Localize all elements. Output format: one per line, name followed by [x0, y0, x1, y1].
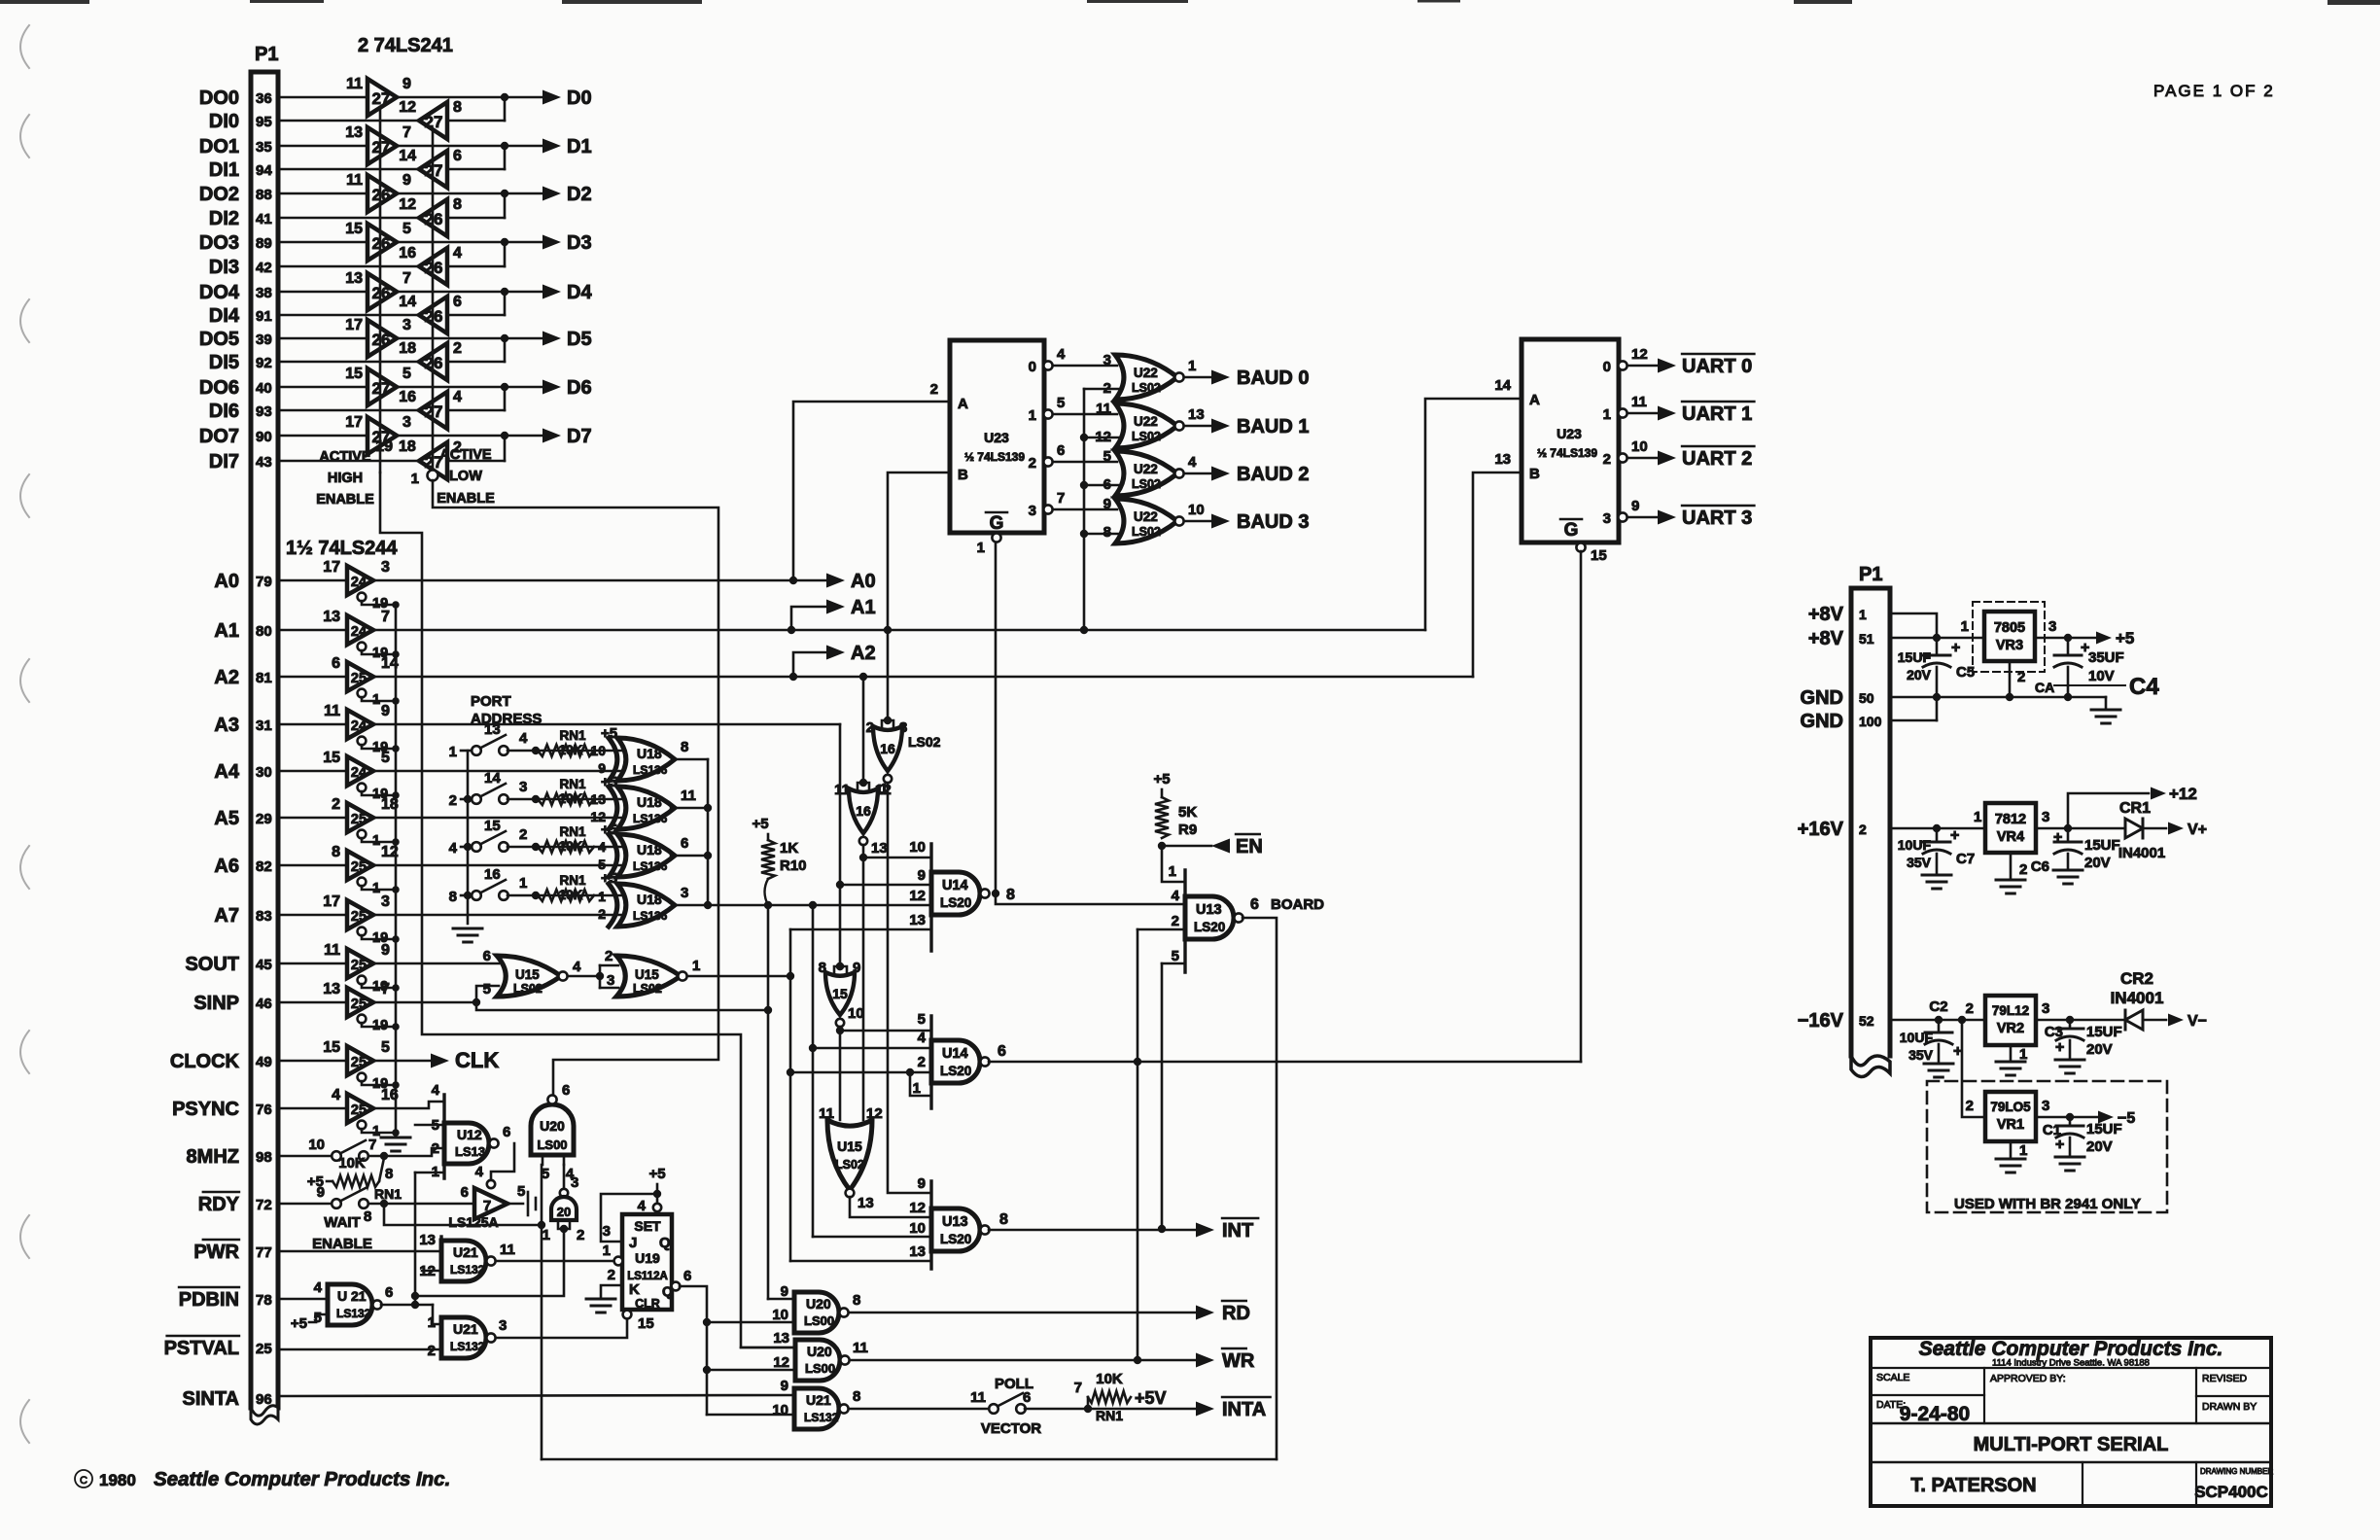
wire U12 pin 5 stub [415, 1124, 444, 1127]
svg-text:7: 7 [402, 270, 411, 287]
svg-text:7: 7 [381, 609, 390, 625]
node D2 output arrow [542, 187, 561, 201]
svg-text:LOW: LOW [449, 469, 482, 484]
wire U13 pin 2 net [1137, 928, 1185, 931]
svg-text:5: 5 [1057, 395, 1065, 411]
svg-text:RN1: RN1 [559, 824, 585, 839]
node D5 output arrow [542, 332, 561, 346]
svg-text:ENABLE: ENABLE [316, 492, 374, 507]
svg-text:6: 6 [1103, 476, 1111, 493]
svg-text:25: 25 [351, 812, 367, 827]
svg-text:1K: 1K [780, 840, 798, 857]
svg-text:R9: R9 [1178, 822, 1197, 838]
buffer U7 LS125A [474, 1188, 507, 1219]
svg-text:DO4: DO4 [199, 282, 240, 303]
svg-text:2: 2 [449, 792, 457, 809]
svg-text:0: 0 [1029, 359, 1036, 375]
svg-text:96: 96 [256, 1391, 272, 1408]
wire switch to U18 input [507, 750, 628, 752]
wire D7 node down to DI7 buffer input [447, 460, 505, 463]
svg-text:U20: U20 [540, 1118, 565, 1134]
svg-text:CLK: CLK [455, 1048, 499, 1072]
nand gate U14 LS20 #2 [929, 1016, 932, 1108]
svg-text:25: 25 [351, 997, 367, 1012]
node BAUD 0 arrow [1184, 376, 1211, 379]
wire A6 to buffer [278, 864, 347, 867]
svg-text:93: 93 [256, 403, 272, 420]
svg-text:A1: A1 [214, 620, 239, 642]
svg-text:INT: INT [1222, 1220, 1253, 1242]
wire DI4 to receiver buffer [278, 314, 419, 317]
svg-text:51: 51 [1859, 631, 1874, 647]
svg-text:6: 6 [453, 148, 462, 164]
nor gate U15 LS02 #1 (pins 6,5 out 4) [497, 956, 561, 997]
svg-text:SCP400C: SCP400C [2194, 1483, 2268, 1501]
buffer U26 driver DO5 (74LS241) [367, 320, 397, 357]
svg-text:27: 27 [372, 89, 391, 108]
svg-text:LS02: LS02 [1132, 430, 1161, 443]
svg-text:15: 15 [638, 1315, 654, 1332]
svg-text:89: 89 [256, 235, 272, 252]
wire enable to rail [362, 984, 396, 988]
svg-text:A: A [958, 396, 968, 412]
svg-text:6: 6 [332, 655, 340, 672]
wire gate 20 to PDBIN net [415, 1229, 564, 1296]
wire A0 to buffer [278, 579, 347, 582]
svg-text:U15: U15 [515, 967, 540, 982]
dashed box USED WITH BR 2941 ONLY [1927, 1081, 2167, 1212]
svg-text:2: 2 [2017, 669, 2025, 685]
wire enable to rail [362, 650, 396, 654]
svg-text:2: 2 [332, 796, 340, 813]
nor gate U16 LS02 inverter #2 (A2) [862, 677, 865, 783]
node A2 arrow [793, 652, 827, 677]
svg-text:10: 10 [909, 1220, 926, 1237]
svg-text:72: 72 [256, 1197, 272, 1213]
bubble enable pin 19 of A3 buffer [358, 737, 367, 746]
wire U15 pin 1 latch output to U14 pin 13 net [687, 975, 790, 978]
wire U14 #2 pin 2 net [790, 1071, 931, 1074]
nand gate U21 LS132 #4 (9,10 out 8) [792, 1388, 795, 1429]
svg-text:79LO5: 79LO5 [1990, 1100, 2031, 1114]
svg-text:36: 36 [256, 90, 272, 107]
wire U14 pin 13 line [790, 928, 931, 931]
wire U21 pin 3 to U19 CLR [496, 1319, 627, 1338]
svg-text:VR4: VR4 [1997, 829, 2024, 845]
svg-text:5: 5 [598, 857, 606, 872]
svg-text:IN4001: IN4001 [2118, 845, 2165, 861]
capacitor C4/35UF 10V [2067, 638, 2070, 655]
svg-text:35V: 35V [1908, 1047, 1934, 1063]
buffer U25 A2 (74LS244) [347, 662, 373, 691]
wire U14 #2 pin 1 stub [910, 1072, 931, 1096]
svg-text:5: 5 [402, 221, 411, 237]
resistor RN1 10K pullup (row 3) [538, 841, 594, 853]
svg-text:DI4: DI4 [209, 305, 240, 327]
node CLK arrow [374, 1060, 431, 1063]
svg-text:LS20: LS20 [1194, 920, 1225, 934]
svg-text:9: 9 [402, 172, 411, 189]
wire active-low enable rail (74LS241 pin 1 side) [432, 130, 435, 471]
svg-text:15: 15 [1591, 547, 1607, 564]
svg-text:A3: A3 [214, 715, 239, 736]
svg-text:8: 8 [853, 1292, 860, 1309]
svg-text:3: 3 [2042, 809, 2049, 825]
svg-text:3: 3 [2042, 1098, 2049, 1114]
svg-text:A4: A4 [214, 761, 239, 783]
svg-text:PWR: PWR [193, 1242, 239, 1263]
svg-text:UART 1: UART 1 [1682, 403, 1752, 425]
svg-text:2: 2 [608, 1267, 615, 1283]
svg-text:SINP: SINP [193, 993, 239, 1014]
svg-text:D5: D5 [567, 329, 592, 350]
svg-text:LS136: LS136 [633, 812, 668, 825]
svg-text:5: 5 [1103, 448, 1111, 465]
buffer U26 driver DO3 (74LS241) [367, 224, 397, 261]
svg-text:20V: 20V [2086, 1138, 2113, 1155]
buffer U27 driver DO6 (74LS241) [367, 368, 397, 405]
svg-text:3: 3 [402, 414, 411, 431]
svg-text:15: 15 [345, 221, 363, 237]
svg-text:BAUD 0: BAUD 0 [1237, 367, 1309, 389]
svg-text:9: 9 [381, 942, 390, 959]
svg-text:SOUT: SOUT [185, 954, 239, 975]
svg-text:T. PATERSON: T. PATERSON [1910, 1475, 2036, 1496]
svg-text:LS20: LS20 [940, 1064, 971, 1078]
wire U15 pin 4 to feedback [568, 975, 600, 978]
node D4 output arrow [542, 285, 561, 299]
svg-text:5: 5 [381, 750, 390, 766]
svg-text:25: 25 [351, 909, 367, 925]
svg-text:BAUD 3: BAUD 3 [1237, 511, 1309, 533]
svg-text:ENABLE: ENABLE [437, 491, 495, 507]
svg-text:11: 11 [324, 942, 340, 959]
wire buffer to D1 node [397, 145, 542, 148]
node UART 3 arrow [1627, 516, 1658, 519]
svg-text:INTA: INTA [1222, 1399, 1266, 1420]
xor gate U18 LS136 #2 [617, 787, 675, 829]
svg-text:3: 3 [681, 885, 688, 901]
svg-text:35: 35 [256, 139, 272, 156]
wire U13 pin 10 net [813, 1236, 931, 1239]
wire D5 node down to DI5 buffer input [447, 361, 505, 364]
svg-text:9: 9 [402, 76, 411, 92]
resistor RN1 10K pullup (row 4) [538, 890, 594, 901]
svg-text:12: 12 [1095, 429, 1111, 445]
wire U22 select bus [1083, 389, 1086, 630]
svg-text:25: 25 [351, 1055, 367, 1070]
svg-text:2: 2 [1603, 451, 1611, 468]
svg-text:+5V: +5V [1135, 1388, 1167, 1408]
svg-text:13: 13 [345, 124, 363, 141]
wire U20 pin 9 from SINP net [768, 1298, 794, 1301]
wire bottom loop (BOARD select return) [542, 1458, 1277, 1461]
node BAUD 1 arrow [1184, 425, 1211, 428]
svg-text:8: 8 [1103, 524, 1111, 541]
bubble enable pin 19 of A7 buffer [358, 927, 367, 936]
svg-text:RDY: RDY [198, 1194, 240, 1215]
svg-text:ACTIVE: ACTIVE [439, 447, 492, 463]
svg-text:13: 13 [909, 912, 926, 928]
svg-text:10: 10 [1188, 502, 1205, 518]
wire buffer to D6 node [397, 386, 542, 389]
svg-text:BAUD 2: BAUD 2 [1237, 464, 1309, 485]
wire DO2 to buffer [278, 192, 367, 195]
svg-text:12: 12 [773, 1354, 789, 1371]
svg-text:29: 29 [256, 811, 272, 827]
wire enable to rail [362, 1081, 396, 1085]
svg-text:C2: C2 [1929, 998, 1947, 1015]
svg-text:5: 5 [381, 1039, 390, 1056]
regulator VR1 79L05 [1985, 1092, 2036, 1141]
wire enable to rail [362, 601, 396, 605]
svg-text:4: 4 [314, 1279, 323, 1296]
wire VR1 pin 3 output -5 [2036, 1116, 2097, 1119]
svg-text:4: 4 [1188, 454, 1197, 471]
svg-text:J: J [629, 1235, 637, 1251]
wire U13 pin 13 net [790, 1260, 931, 1263]
svg-text:10K: 10K [559, 791, 583, 806]
svg-text:U13: U13 [1196, 902, 1222, 918]
svg-text:83: 83 [256, 908, 272, 925]
bubble enable pin 19 of SINP buffer [358, 1015, 367, 1024]
svg-text:LS136: LS136 [633, 909, 668, 923]
buffer U25 CLOCK (74LS244) [347, 1046, 373, 1075]
svg-text:RD: RD [1222, 1303, 1250, 1324]
wire PSTVAL to U21 pin 2 [278, 1348, 441, 1351]
nand gate U12 LS13 [442, 1095, 445, 1178]
svg-text:2: 2 [918, 1054, 926, 1070]
wire buffer to D5 node [397, 337, 542, 340]
buffer U27 receiver DI7 (74LS241) [419, 442, 447, 479]
svg-text:D0: D0 [567, 87, 592, 109]
svg-text:13: 13 [1188, 406, 1205, 423]
wire GND pin 50 line [1890, 696, 2106, 699]
wire A4 line to U18 pin 9 [374, 770, 626, 773]
wire gate 16 #1 output down to U13 pin 9 [888, 783, 931, 1193]
svg-text:DI5: DI5 [209, 352, 239, 373]
svg-text:U20: U20 [807, 1344, 832, 1359]
svg-text:15: 15 [484, 818, 501, 834]
ground (switch common) [453, 927, 482, 930]
bubble U23 G-bar pin 1 [992, 533, 1000, 542]
wire enable to rail [362, 791, 396, 795]
svg-text:1: 1 [1169, 863, 1176, 880]
svg-text:4: 4 [432, 1082, 440, 1099]
svg-text:½ 74LS139: ½ 74LS139 [964, 450, 1025, 464]
svg-text:14: 14 [1494, 377, 1511, 394]
svg-text:10: 10 [308, 1137, 325, 1153]
buffer U26 receiver DI3 (74LS241) [419, 248, 447, 285]
svg-text:11: 11 [500, 1242, 515, 1258]
wire RDY from connector [278, 1203, 332, 1206]
svg-text:14: 14 [484, 770, 501, 787]
svg-text:−16V: −16V [1798, 1010, 1844, 1032]
wire 8MHZ from connector [278, 1155, 332, 1158]
wire A2 to buffer [278, 676, 347, 679]
svg-text:ACTIVE: ACTIVE [319, 449, 371, 465]
svg-text:U14: U14 [942, 878, 968, 893]
buffer U25 SINP (74LS244) [347, 988, 373, 1017]
buffer U24 A1 (74LS244) [347, 615, 373, 645]
svg-text:+: + [1951, 640, 1960, 656]
buffer U25 SOUT (74LS244) [347, 949, 373, 978]
svg-text:10K: 10K [559, 888, 583, 902]
svg-text:3: 3 [2042, 1000, 2049, 1017]
node +12 arrow [2068, 793, 2149, 828]
nand gate U20 LS00 #4 (13,12 out 11) [793, 1340, 796, 1381]
svg-text:VECTOR: VECTOR [981, 1420, 1041, 1437]
svg-text:C4: C4 [2129, 674, 2159, 700]
svg-text:15: 15 [323, 750, 340, 766]
bubble enable pin 1 of A5 buffer [358, 830, 367, 839]
wire U18 outputs bus [675, 758, 708, 761]
svg-text:8: 8 [1006, 887, 1015, 903]
svg-text:4: 4 [598, 839, 606, 855]
svg-text:10K: 10K [338, 1155, 366, 1172]
svg-text:+8V: +8V [1808, 604, 1844, 625]
svg-text:15UF: 15UF [2084, 837, 2120, 854]
svg-text:8: 8 [364, 1208, 371, 1225]
node V- arrow [2143, 1019, 2166, 1022]
wire buffer to D4 node [397, 291, 542, 294]
svg-text:7: 7 [483, 1198, 491, 1214]
svg-text:RN1: RN1 [1096, 1408, 1123, 1423]
svg-text:10: 10 [772, 1402, 788, 1418]
svg-text:BAUD 1: BAUD 1 [1237, 416, 1309, 437]
buffer U26 driver DO2 (74LS241) [367, 175, 397, 212]
svg-text:6: 6 [461, 1184, 469, 1201]
svg-text:11: 11 [970, 1389, 986, 1406]
wire VR4 pin 2 ground [2010, 853, 2012, 878]
svg-text:24: 24 [351, 575, 367, 590]
svg-text:98: 98 [256, 1149, 272, 1166]
svg-text:LS00: LS00 [537, 1137, 567, 1152]
svg-text:20V: 20V [2084, 855, 2111, 871]
svg-text:18: 18 [399, 340, 416, 357]
nor gate U15 LS02 #4 (8,9 out 10) [834, 966, 847, 972]
svg-text:EN: EN [1236, 836, 1263, 857]
svg-text:UART 3: UART 3 [1682, 507, 1752, 529]
svg-text:U14: U14 [942, 1046, 968, 1062]
wire RDY branch to U20 pin 5 [384, 1204, 542, 1225]
buffer U24 A0 (74LS244) [347, 566, 373, 595]
svg-text:3: 3 [519, 779, 527, 795]
svg-text:8: 8 [449, 889, 457, 905]
svg-text:9: 9 [381, 703, 390, 719]
nor gate U15 LS02 #2 (pins 2,3 out 1) [616, 956, 681, 997]
svg-text:2: 2 [1103, 380, 1111, 397]
svg-text:25: 25 [351, 671, 367, 686]
svg-text:D4: D4 [567, 282, 592, 303]
node INT-bar arrow [989, 1229, 1196, 1232]
svg-text:6: 6 [683, 1268, 691, 1284]
capacitor C7 10UF 35V [1936, 828, 1939, 842]
node D3 output arrow [542, 235, 561, 250]
svg-text:ENABLE: ENABLE [312, 1236, 372, 1252]
wire SOUT to buffer [278, 962, 347, 965]
svg-text:+: + [1950, 827, 1959, 844]
wire R9 to U13 pin 1 [1162, 846, 1185, 882]
title block frame [1871, 1338, 2271, 1506]
svg-text:DI1: DI1 [209, 159, 239, 181]
svg-text:5: 5 [402, 366, 411, 382]
buffer U27 receiver DI0 (74LS241) [419, 102, 447, 139]
svg-text:5: 5 [517, 1183, 525, 1200]
svg-text:46: 46 [256, 996, 272, 1012]
svg-text:25: 25 [351, 1102, 367, 1118]
wire CLOCK to buffer [278, 1060, 347, 1063]
svg-text:U23: U23 [984, 430, 1009, 445]
node D1 output arrow [542, 139, 561, 154]
svg-text:LS00: LS00 [805, 1361, 835, 1376]
regulator VR4 7812 [1985, 803, 2036, 853]
wire SINP to buffer [278, 1001, 347, 1004]
svg-text:2: 2 [1029, 455, 1036, 472]
svg-text:3: 3 [603, 1223, 611, 1240]
svg-text:BOARD: BOARD [1271, 896, 1324, 913]
nand gate U14 LS20 #1 [929, 844, 932, 951]
wire DI7 to receiver buffer [278, 460, 419, 463]
svg-text:12: 12 [399, 196, 416, 213]
svg-text:PSTVAL: PSTVAL [164, 1338, 239, 1359]
wire U23 output 1 to U22 gate [1053, 413, 1117, 416]
xor gate U18 LS136 #1 [617, 738, 675, 781]
svg-text:LS02: LS02 [1132, 477, 1161, 491]
svg-text:APPROVED BY:: APPROVED BY: [1990, 1373, 2066, 1384]
wire U21 pin 12 stub [422, 1270, 441, 1273]
svg-text:16: 16 [856, 803, 871, 819]
wire A3 branch down to gate U15-15 [839, 885, 842, 966]
svg-text:35V: 35V [1907, 855, 1932, 870]
xor gate U18 LS136 #4 [617, 884, 675, 927]
svg-text:D2: D2 [567, 184, 592, 205]
svg-text:9: 9 [317, 1184, 325, 1201]
wire D2 node down to DI2 buffer input [447, 217, 505, 220]
svg-text:+5: +5 [291, 1315, 307, 1332]
svg-text:2: 2 [1172, 913, 1179, 929]
svg-text:2: 2 [1966, 1000, 1974, 1017]
svg-text:82: 82 [256, 858, 272, 875]
svg-text:½ 74LS139: ½ 74LS139 [1537, 446, 1597, 460]
svg-text:6: 6 [681, 835, 688, 852]
svg-text:14: 14 [399, 148, 416, 164]
svg-text:U18: U18 [637, 794, 662, 810]
svg-text:VR1: VR1 [1997, 1117, 2024, 1133]
buffer U27 receiver DI1 (74LS241) [419, 151, 447, 188]
buffer U24 A4 (74LS244) [347, 756, 373, 786]
wire A4 to buffer [278, 770, 347, 773]
svg-text:PAGE 1 OF 2: PAGE 1 OF 2 [2153, 82, 2275, 100]
wire A3 to buffer [278, 723, 347, 726]
bubble U19 clock pin 1 [614, 1257, 623, 1266]
svg-text:SET: SET [634, 1218, 661, 1234]
svg-text:9-24-80: 9-24-80 [1900, 1403, 1970, 1425]
svg-text:7: 7 [1057, 490, 1065, 507]
svg-text:2: 2 [428, 1343, 436, 1359]
buffer U24 A3 (74LS244) [347, 710, 373, 739]
wire DO6 to buffer [278, 386, 367, 389]
ground (C7) [1922, 874, 1951, 877]
svg-text:D6: D6 [567, 377, 592, 399]
wire D4 node down to DI4 buffer input [447, 314, 505, 317]
wire VR1 pin 1 ground [2010, 1141, 2012, 1157]
wire buffer to D3 node [397, 241, 542, 244]
svg-text:CA: CA [2035, 680, 2054, 695]
svg-text:LS00: LS00 [804, 1313, 834, 1328]
svg-text:1: 1 [542, 1227, 550, 1243]
svg-text:11: 11 [324, 703, 340, 719]
